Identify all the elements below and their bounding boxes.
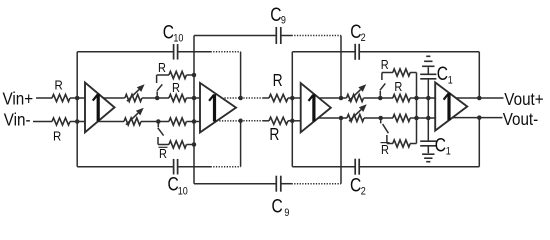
node U3 +out bbox=[339, 96, 344, 101]
svg-text:10: 10 bbox=[178, 186, 188, 198]
op-amp U2 bbox=[200, 83, 236, 132]
wire Vin+ to R bbox=[36, 97, 52, 99]
variable resistor (U3 bottom) bbox=[347, 114, 364, 121]
node U3 -out bbox=[339, 116, 344, 121]
switch S2 bbox=[157, 124, 159, 128]
wire amp3 input rail bbox=[291, 52, 293, 167]
wire C9 bottom rail bbox=[194, 183, 276, 185]
node bank1 R1 bbox=[192, 73, 197, 78]
wire C9 dashed to U3 out bbox=[292, 35, 342, 37]
capacitor C1 (bottom) bbox=[420, 140, 436, 142]
wire amp2 input rail bbox=[193, 36, 195, 184]
wire C10 bottom rail bbox=[77, 166, 173, 168]
svg-text:2: 2 bbox=[361, 186, 366, 198]
node B (U1 bottom out) bbox=[156, 119, 161, 124]
svg-text:C: C bbox=[437, 63, 448, 85]
node U3 -in bbox=[290, 119, 295, 124]
wire varistor to node D bbox=[364, 117, 381, 119]
resistor R (bank2 top) bbox=[382, 72, 393, 74]
capacitor C9 (top) bbox=[275, 27, 277, 44]
resistor Rbar (bank2 bottom) bbox=[387, 143, 393, 145]
wire U4 top output bbox=[456, 97, 504, 99]
svg-text:C: C bbox=[163, 21, 174, 43]
svg-text:Vout-: Vout- bbox=[503, 110, 539, 129]
wire U3 bottom out vertical bbox=[340, 118, 342, 184]
switch S4 bbox=[380, 120, 382, 123]
resistor Rbar (bank1 bottom) bbox=[158, 144, 169, 146]
wire Vin- to R bbox=[33, 121, 52, 123]
svg-text:C: C bbox=[270, 3, 281, 25]
capacitor C2 (bottom) bbox=[354, 159, 356, 175]
switch S1 bbox=[156, 75, 158, 83]
wire U2 bot out dashed bbox=[219, 120, 240, 122]
node bank1 R3 bbox=[192, 119, 197, 124]
op-amp U1 bbox=[85, 83, 115, 133]
node U3 +in bbox=[290, 96, 295, 101]
op-amp U3 bbox=[301, 83, 331, 132]
node D (U3 bottom out) bbox=[378, 116, 383, 121]
wire amp1 +in stub bbox=[77, 97, 85, 99]
wire varistor to node C bbox=[364, 97, 381, 99]
node A (U1 top out) bbox=[155, 96, 160, 101]
variable resistor (U3 top) bbox=[347, 94, 364, 101]
svg-text:R: R bbox=[381, 144, 389, 158]
resistor R (middle bottom) bbox=[264, 120, 270, 122]
node U2 -out bbox=[238, 119, 243, 124]
wire C2 top rail bbox=[292, 51, 355, 53]
resistor R (bank2 row3) bbox=[381, 117, 393, 119]
switch S3 bbox=[381, 73, 383, 81]
svg-text:R: R bbox=[394, 80, 402, 94]
svg-text:9: 9 bbox=[281, 15, 286, 27]
svg-text:Vin+: Vin+ bbox=[3, 89, 34, 108]
wire U4 bottom out vertical bbox=[478, 118, 480, 167]
wire U1 bottom output bbox=[98, 121, 124, 123]
wire U3 top out vertical bbox=[340, 36, 342, 99]
wire amp1 -in stub bbox=[77, 121, 85, 123]
resistor R (bank1 row2) bbox=[157, 97, 169, 99]
variable resistor (U1 top) bbox=[125, 94, 142, 101]
resistor R (Vin+ input) bbox=[52, 94, 70, 101]
svg-text:C: C bbox=[435, 134, 446, 156]
wire U1 top output bbox=[103, 97, 124, 99]
resistor R (middle top) bbox=[264, 97, 270, 99]
svg-text:2: 2 bbox=[361, 32, 366, 44]
wire varistor to node B bbox=[141, 121, 158, 123]
wire mid dashed top bbox=[241, 97, 264, 99]
wire varistor to node A bbox=[142, 97, 157, 99]
node U4 -in bbox=[426, 116, 431, 121]
capacitor C9 (bottom) bbox=[275, 176, 277, 192]
svg-text:Vin-: Vin- bbox=[4, 111, 31, 130]
variable resistor (U1 bottom) bbox=[124, 118, 141, 125]
resistor R (bank1 row3) bbox=[158, 121, 169, 123]
resistor R (bank1 top) bbox=[157, 74, 169, 76]
capacitor C1 (top) bbox=[420, 73, 436, 75]
svg-text:R: R bbox=[273, 72, 283, 91]
wire U2 top out vertical bbox=[240, 52, 242, 98]
resistor R (Vin- input) bbox=[52, 118, 70, 125]
node U4 -out bbox=[477, 115, 482, 120]
svg-text:9: 9 bbox=[284, 207, 289, 219]
svg-text:C: C bbox=[350, 20, 361, 42]
capacitor C10 (bottom) bbox=[173, 159, 175, 175]
node amp1 -in bbox=[75, 119, 80, 124]
node C (U3 top out) bbox=[378, 96, 383, 101]
wire U4 bottom output bbox=[452, 117, 502, 119]
svg-text:C: C bbox=[350, 174, 361, 196]
svg-text:R: R bbox=[55, 78, 63, 93]
node amp1 +in bbox=[75, 96, 80, 101]
wire U3 bottom output bbox=[318, 117, 341, 119]
svg-text:1: 1 bbox=[446, 146, 451, 158]
svg-text:C: C bbox=[272, 195, 283, 217]
node bank1 R4 bbox=[192, 142, 197, 147]
node bank2 R2 bbox=[414, 96, 419, 101]
wire U2 bottom out vertical bbox=[240, 121, 242, 167]
node U4 +in bbox=[426, 96, 431, 101]
node bank2 R3 bbox=[414, 116, 419, 121]
wire C9b dashed to U3 out bbox=[292, 183, 342, 185]
node bank1 R2 bbox=[192, 96, 197, 101]
wire C10 top rail bbox=[77, 51, 173, 53]
node U2 +out bbox=[238, 96, 243, 101]
svg-text:R: R bbox=[158, 61, 166, 75]
wire bank2 rail bbox=[416, 73, 418, 144]
wire C2 bottom rail bbox=[292, 166, 355, 168]
wire C9 top rail bbox=[194, 35, 276, 37]
svg-text:10: 10 bbox=[173, 33, 183, 45]
wire U3 top output bbox=[319, 97, 341, 99]
svg-text:R: R bbox=[269, 125, 279, 144]
wire C10b dashed to U2 out bbox=[211, 166, 241, 168]
wire C10 dashed to U2 out bbox=[211, 51, 241, 53]
svg-text:R: R bbox=[53, 129, 61, 144]
wire U4 top out vertical bbox=[478, 52, 480, 98]
capacitor C10 (top) bbox=[173, 44, 175, 60]
wire amp4 input rail bbox=[427, 79, 429, 141]
svg-text:R: R bbox=[381, 59, 389, 73]
wire mid dashed bottom bbox=[241, 120, 264, 122]
wire U2 top out dashed bbox=[224, 97, 240, 99]
svg-text:Vout+: Vout+ bbox=[504, 90, 543, 109]
node U4 +out bbox=[477, 96, 482, 101]
resistor R (bank2 row2) bbox=[380, 97, 393, 99]
op-amp U4 bbox=[435, 82, 467, 130]
wire amp1 input rail bbox=[76, 52, 78, 167]
svg-text:R: R bbox=[172, 81, 180, 95]
svg-text:1: 1 bbox=[448, 75, 453, 87]
capacitor C2 (top) bbox=[354, 44, 356, 60]
svg-text:R: R bbox=[159, 147, 167, 161]
